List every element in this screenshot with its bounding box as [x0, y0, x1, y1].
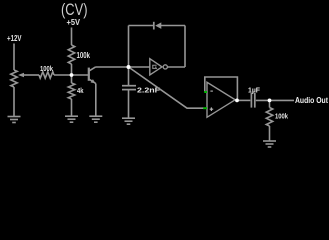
pin - input stub	[204, 91, 207, 93]
wire out node down	[269, 100, 271, 107]
capacitor 2.2nF	[122, 85, 136, 87]
diode D1	[153, 22, 155, 30]
wire base	[72, 74, 89, 76]
wire node B to op-amp (diagonal)	[129, 67, 204, 108]
wire 100k to node A	[71, 64, 73, 75]
hysteresis symbol	[152, 65, 157, 68]
inverter U1 (Schmitt trigger)	[150, 59, 162, 75]
svg-text:1µF: 1µF	[248, 86, 260, 95]
svg-text:100k: 100k	[40, 64, 54, 73]
node B junction	[127, 65, 131, 69]
svg-text:+5V: +5V	[67, 18, 81, 27]
ground (load)	[263, 140, 276, 142]
svg-text:Audio Out: Audio Out	[295, 96, 328, 105]
node A junction	[70, 73, 74, 77]
wire emitter down	[95, 84, 97, 117]
wire cap bottom	[128, 90, 130, 119]
wire feedback left vertical	[128, 26, 130, 68]
transistor Q1	[88, 68, 90, 81]
resistor 100k (wiper series)	[39, 72, 54, 78]
wire resistor to node A	[54, 74, 72, 76]
label + sign	[210, 108, 214, 110]
svg-text:4k: 4k	[77, 86, 84, 95]
op-amp U2	[207, 82, 235, 117]
ground (cap)	[122, 117, 135, 119]
wire node B down to cap	[128, 67, 130, 86]
wire node B to inverter input	[129, 66, 150, 68]
resistor 100k (CV pull)	[68, 45, 74, 64]
ground (4k)	[65, 115, 78, 117]
svg-text:100k: 100k	[77, 51, 91, 60]
node out junction	[268, 99, 272, 103]
resistor 4k	[68, 83, 74, 99]
wire feedback right vertical	[184, 26, 186, 68]
wire load bottom	[269, 126, 271, 141]
resistor 100k (load)	[266, 108, 272, 127]
wire +5V down	[71, 28, 73, 46]
wire op-amp output	[236, 99, 250, 101]
wire feedback top left	[129, 25, 154, 27]
wire collector to node B	[96, 66, 129, 68]
potentiometer wiper arrow	[23, 74, 39, 76]
label - sign	[210, 90, 213, 92]
op-amp feedback loop	[205, 77, 238, 101]
potentiometer VR1 body	[11, 70, 17, 87]
svg-text:(CV): (CV)	[61, 1, 88, 19]
wire cap to out node	[256, 99, 294, 101]
wire pot bottom	[13, 87, 15, 117]
node output junction	[235, 99, 239, 103]
ground (emitter)	[89, 115, 102, 117]
wire node A down	[71, 75, 73, 83]
wire +12V rail	[13, 44, 15, 71]
ground (pot)	[8, 116, 21, 118]
wire 4k bottom	[71, 99, 73, 116]
svg-text:100k: 100k	[275, 112, 289, 121]
pin + input stub	[203, 107, 207, 109]
capacitor 1uF	[250, 93, 252, 108]
wire feedback top right	[161, 25, 185, 27]
wire inverter output	[168, 66, 186, 68]
inverter output bubble	[163, 65, 167, 69]
svg-text:+12V: +12V	[7, 34, 22, 43]
